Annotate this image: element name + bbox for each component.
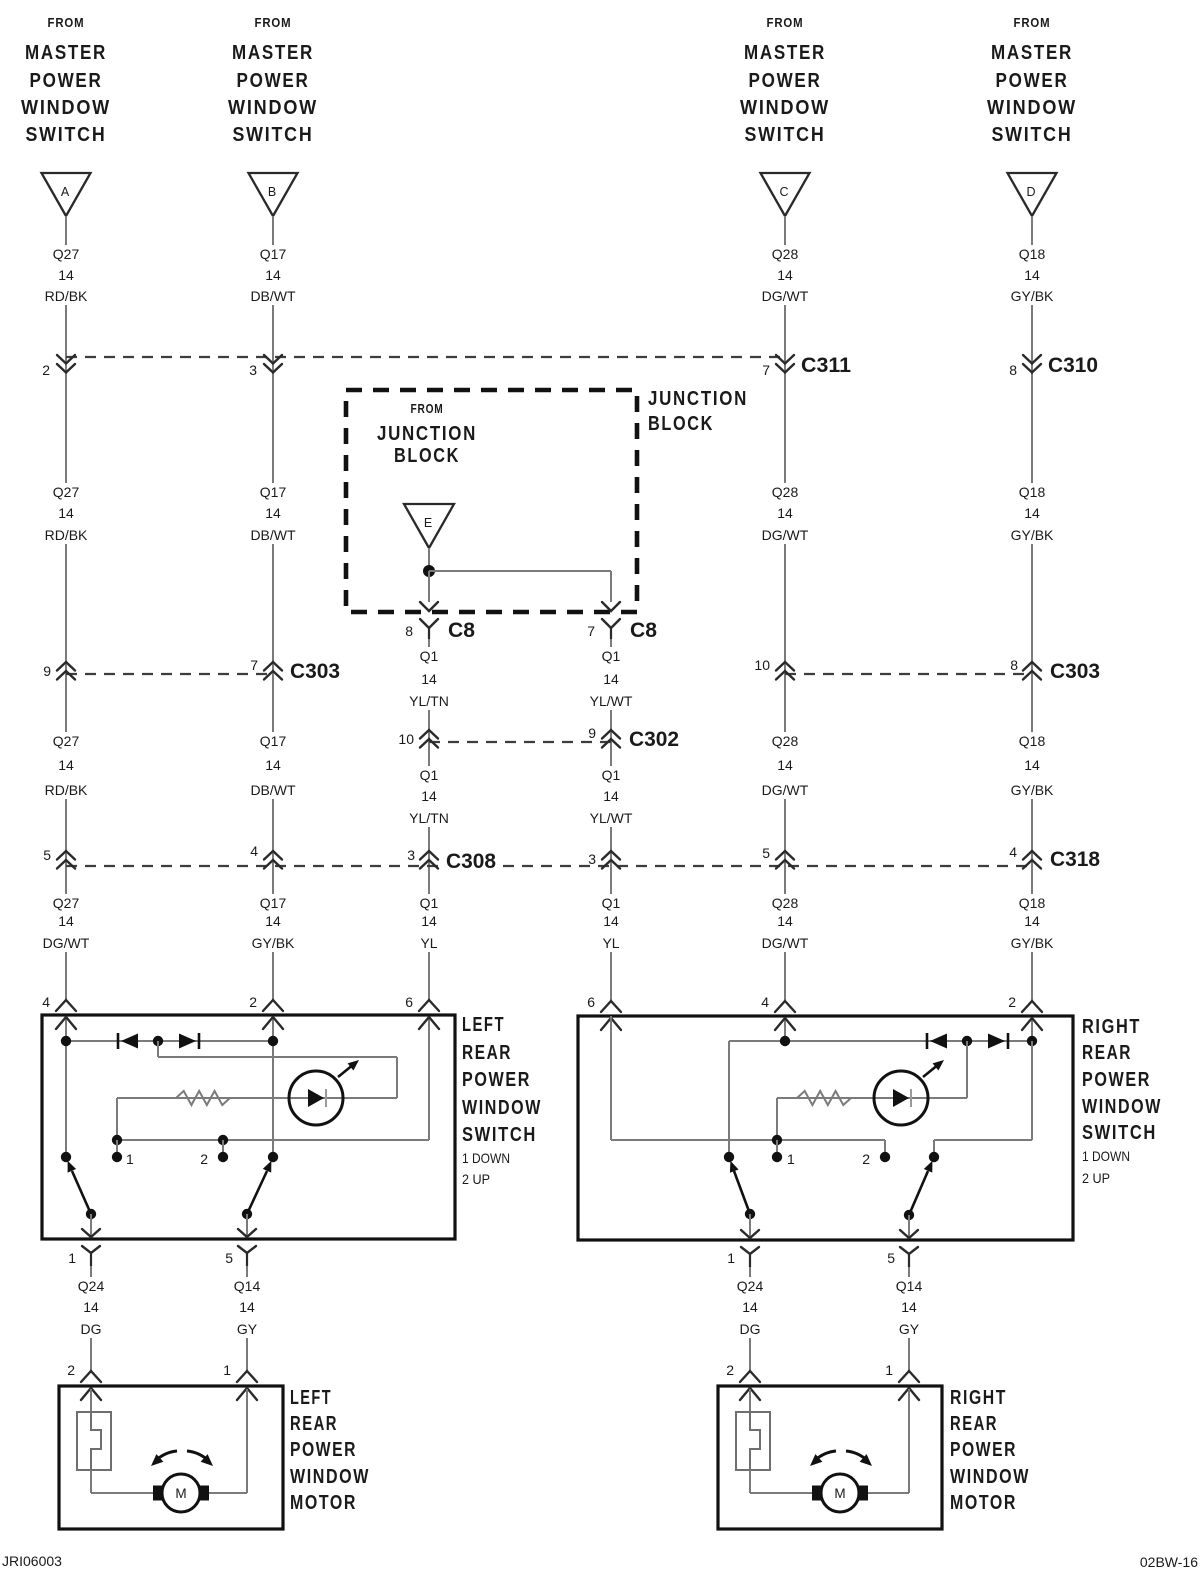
contact stub 1 (right box) [776,1140,778,1157]
svg-text:POWER: POWER [462,1069,531,1091]
junction dot pin4/top bus [61,1036,71,1046]
wire switch pin1 to motor (left) [90,1266,92,1371]
switch arm 1 pivot dot (right box) [745,1209,755,1219]
label FROM JUNCTION BLOCK (inside box) [377,401,477,467]
svg-text:14: 14 [265,757,281,773]
wire resistor drop (right) [776,1098,778,1140]
right rear power window switch box outline [578,1016,1073,1240]
svg-text:Q28: Q28 [772,895,799,911]
wire label Q1 14 YL/WT (col E-right lower) [585,766,638,827]
junction block dashed outline [346,390,637,612]
svg-text:FROM: FROM [767,15,804,30]
svg-text:GY: GY [237,1321,258,1337]
left rear power window motor box outline [59,1386,283,1529]
svg-text:LEFT: LEFT [462,1014,505,1036]
svg-text:SWITCH: SWITCH [992,124,1073,146]
svg-text:DG/WT: DG/WT [762,935,809,951]
off-page connector triangle D [1008,173,1057,216]
svg-text:14: 14 [603,788,619,804]
wire label Q24 14 DG (right) [733,1277,768,1338]
svg-text:GY/BK: GY/BK [252,935,295,951]
svg-text:2: 2 [726,1362,734,1378]
connector C8 pin 8 [405,602,438,639]
svg-text:YL: YL [602,935,619,951]
wire column C (Q28) [784,216,786,1000]
svg-text:1: 1 [126,1151,134,1167]
svg-text:POWER: POWER [749,70,822,92]
svg-text:Q27: Q27 [53,484,80,500]
svg-text:SWITCH: SWITCH [233,124,314,146]
svg-text:14: 14 [265,505,281,521]
junction node dot [423,565,435,577]
svg-text:1 DOWN: 1 DOWN [1082,1148,1130,1164]
connector pin 2 (col A row 1) [42,355,75,378]
switch pin 4 entry (right box) [761,994,795,1030]
svg-text:GY: GY [899,1321,920,1337]
wire motor to pin1 (right) [868,1492,909,1494]
svg-text:YL: YL [420,935,437,951]
off-page connector triangle A [42,173,91,216]
svg-text:YL/TN: YL/TN [409,693,449,709]
svg-text:Q27: Q27 [53,246,80,262]
svg-text:7: 7 [587,623,595,639]
dashed harness line row 1 [66,356,787,358]
svg-text:14: 14 [742,1299,758,1315]
switch arm 1 (left box) [72,1171,91,1214]
svg-text:14: 14 [603,671,619,687]
wire column E-right (Q1 YL/WT) [610,639,612,1000]
svg-text:Q1: Q1 [420,895,439,911]
switch pin 5 exit (right box) [887,1230,918,1267]
svg-text:14: 14 [58,267,74,283]
svg-text:14: 14 [901,1299,917,1315]
indicator lamp circle (right) [874,1071,928,1125]
svg-text:C311: C311 [801,354,851,377]
svg-text:DB/WT: DB/WT [250,288,296,304]
wire lamp feed horizontal [158,1056,397,1058]
svg-text:MASTER: MASTER [991,42,1073,64]
svg-text:1: 1 [787,1151,795,1167]
lamp LED triangle (left) [308,1089,324,1107]
label JUNCTION BLOCK (outside box) [648,388,748,435]
dashed harness line C302 [429,741,611,743]
svg-text:FROM: FROM [411,401,444,416]
svg-text:DG/WT: DG/WT [43,935,90,951]
svg-text:2 UP: 2 UP [462,1171,490,1187]
wire label Q18 14 GY/BK (col D mid2) [1006,732,1059,799]
wire label Q18 14 GY/BK (col D top) [1006,245,1059,305]
svg-text:14: 14 [239,1299,255,1315]
switch pin 6 entry (left box) [405,994,439,1029]
svg-text:C8: C8 [448,619,475,642]
wire label Q24 14 DG (left) [74,1277,109,1338]
motor pin 1 entry (left) [223,1362,257,1400]
lamp LED bar (right) [910,1089,912,1107]
svg-text:14: 14 [265,267,281,283]
svg-text:LEFT: LEFT [290,1387,332,1409]
svg-text:9: 9 [43,663,51,679]
switch arm 2 (right box) [909,1171,928,1215]
svg-text:Q17: Q17 [260,246,287,262]
svg-text:DG: DG [740,1321,761,1337]
wire label Q1 14 YL (col E-left bottom) [412,894,446,952]
svg-text:SWITCH: SWITCH [745,124,826,146]
wire entry to breaker (right) [749,1389,751,1412]
svg-text:10: 10 [398,731,414,747]
svg-text:A: A [61,185,70,199]
resistor (left switch illumination) [176,1091,230,1105]
svg-text:C8: C8 [630,619,657,642]
wire column B (Q17) [272,216,274,1000]
svg-text:1: 1 [68,1250,76,1266]
svg-text:SWITCH: SWITCH [462,1124,537,1146]
svg-text:RD/BK: RD/BK [45,782,88,798]
svg-text:M: M [834,1486,845,1501]
wire resistor drop (left) [116,1098,118,1140]
svg-text:14: 14 [58,505,74,521]
svg-text:GY/BK: GY/BK [1011,527,1054,543]
svg-text:POWER: POWER [237,70,310,92]
svg-text:BLOCK: BLOCK [394,445,460,467]
svg-text:REAR: REAR [290,1413,338,1435]
diode D2 (left box, pointing right) [179,1033,199,1049]
svg-text:1: 1 [727,1250,735,1266]
svg-text:C: C [779,185,788,199]
svg-text:14: 14 [421,788,437,804]
svg-text:14: 14 [83,1299,99,1315]
junction dot lower bus mid [218,1135,228,1145]
svg-text:8: 8 [1010,657,1018,673]
svg-text:2: 2 [249,994,257,1010]
svg-text:BLOCK: BLOCK [648,413,714,435]
contact stub 2 (left box) [222,1140,224,1157]
wire label Q17 14 DB/WT (col B top) [247,245,300,305]
right switch internal top bus wire [729,1040,1032,1042]
svg-text:FROM: FROM [255,15,292,30]
svg-text:Q18: Q18 [1019,246,1046,262]
svg-text:DG: DG [81,1321,102,1337]
contact dot 2 (right box) [880,1152,890,1162]
wire label Q27 14 RD/BK (col A mid2) [40,732,93,799]
connector C318 pin 5 (col C) [762,845,794,869]
svg-text:10: 10 [754,657,770,673]
off-page connector triangle E [404,504,454,548]
connector C302 pin 9 (col E-right) [588,725,620,748]
svg-text:WINDOW: WINDOW [987,97,1077,119]
svg-text:14: 14 [1024,505,1040,521]
svg-text:2: 2 [42,362,50,378]
wire pin2 jog horizontal (right box) [934,1139,1032,1141]
svg-text:C302: C302 [629,728,679,751]
circuit breaker (left) [77,1412,111,1470]
svg-text:E: E [424,516,432,530]
wire left branch down to C8 [428,571,430,602]
wire breaker to motor (right) [749,1470,751,1493]
svg-text:WINDOW: WINDOW [740,97,830,119]
svg-text:14: 14 [603,913,619,929]
svg-text:Q27: Q27 [53,733,80,749]
wire pin2 jog down (right box) [1031,1041,1033,1140]
svg-text:4: 4 [250,843,258,859]
header label: FROM MASTER POWER WINDOW SWITCH (C) [740,15,830,146]
svg-text:FROM: FROM [1014,15,1051,30]
svg-text:14: 14 [1024,913,1040,929]
wire pin6 riser (right box) [610,1016,612,1140]
svg-text:Q1: Q1 [602,648,621,664]
svg-text:Q14: Q14 [896,1278,923,1294]
switch pin 1 exit (left box) [68,1229,100,1266]
switch pin 5 exit (left box) [225,1229,256,1266]
common contact dot switch2 (right box) [929,1152,939,1162]
svg-text:Q24: Q24 [737,1278,764,1294]
svg-text:REAR: REAR [462,1042,512,1064]
svg-text:Q18: Q18 [1019,484,1046,500]
left switch lower bus wire [117,1139,429,1141]
svg-text:8: 8 [1009,362,1017,378]
svg-text:WINDOW: WINDOW [950,1466,1030,1488]
svg-text:Q18: Q18 [1019,895,1046,911]
svg-text:Q17: Q17 [260,733,287,749]
svg-text:MASTER: MASTER [232,42,314,64]
svg-text:6: 6 [405,994,413,1010]
svg-text:1: 1 [885,1362,893,1378]
wire label Q1 14 YL/WT (col E-right upper) [585,647,638,710]
svg-text:YL/TN: YL/TN [409,810,449,826]
connector C303 pin 10 (col C) [754,657,794,680]
svg-text:MASTER: MASTER [25,42,107,64]
label RIGHT REAR POWER WINDOW SWITCH [1082,1016,1162,1186]
svg-text:DG/WT: DG/WT [762,782,809,798]
svg-text:WINDOW: WINDOW [228,97,318,119]
switch arm 2 pivot dot (left box) [242,1209,252,1219]
rotation arrows (right) [814,1451,836,1461]
svg-text:Q17: Q17 [260,484,287,500]
svg-text:WINDOW: WINDOW [1082,1096,1162,1118]
wire label Q17 14 DB/WT (col B mid2) [247,732,300,799]
svg-text:4: 4 [1009,844,1017,860]
connector C318 pin 4 (col D) [1009,844,1041,869]
junction dot pin2/top bus (right) [1027,1036,1037,1046]
svg-text:Q27: Q27 [53,895,80,911]
lamp indicator arrow (right) [923,1064,939,1077]
wire pivot2 to pin 5 exit [246,1214,248,1237]
wire label Q18 14 GY/BK (col D bottom) [1006,894,1059,952]
contact dot 2 (left box) [218,1152,228,1162]
wire pin2 jog stub (right box) [933,1140,935,1157]
svg-text:Q1: Q1 [602,895,621,911]
svg-text:1: 1 [223,1362,231,1378]
svg-text:14: 14 [777,505,793,521]
svg-text:C303: C303 [290,660,340,683]
wire label Q28 14 DG/WT (col C mid1) [759,483,812,544]
contact dot 1 (left box) [112,1152,122,1162]
connector C311 pin 7 [762,355,794,378]
svg-text:5: 5 [762,845,770,861]
svg-text:5: 5 [225,1250,233,1266]
svg-text:POWER: POWER [996,70,1069,92]
wire right branch down to C8 [610,571,612,602]
svg-text:14: 14 [58,913,74,929]
svg-text:YL/WT: YL/WT [590,810,633,826]
switch pin 2 entry (right box) [1008,994,1042,1030]
svg-text:14: 14 [1024,757,1040,773]
switch arm 1 (right box) [734,1171,750,1214]
contact stub 2 (right box) [884,1140,886,1157]
connector pin 3 (col B row 1) [249,355,282,378]
junction dot pin2/top bus [268,1036,278,1046]
svg-text:5: 5 [43,847,51,863]
svg-text:MOTOR: MOTOR [290,1492,357,1514]
svg-text:Q28: Q28 [772,484,799,500]
svg-text:DG/WT: DG/WT [762,527,809,543]
svg-text:5: 5 [887,1250,895,1266]
svg-text:14: 14 [421,671,437,687]
diode D1 (right box, pointing left) [927,1033,947,1049]
wire pivot2 to pin 5 exit (right) [908,1215,910,1238]
switch pin 4 entry (left box) [42,994,76,1029]
svg-text:2: 2 [67,1362,75,1378]
switch pin 6 entry (right box) [587,994,621,1030]
switch pin 1 exit (right box) [727,1230,759,1267]
dashed harness line C308/C318 [66,865,1032,867]
svg-text:14: 14 [1024,267,1040,283]
wire label Q27 14 DG/WT (col A bottom) [40,894,93,952]
connector C308 pin 5 (col A) [43,847,75,869]
svg-text:3: 3 [249,362,257,378]
wire top bus corner drop to switch 1 (right) [728,1041,730,1157]
svg-text:WINDOW: WINDOW [290,1466,370,1488]
contact stub 1 (left box) [116,1140,118,1157]
svg-text:C308: C308 [446,850,496,873]
svg-text:D: D [1026,185,1035,199]
junction dot lower bus (right) [772,1135,782,1145]
svg-text:POWER: POWER [950,1439,1017,1461]
wire lamp feed drop [396,1057,398,1098]
lamp indicator arrow (left) [338,1064,354,1077]
junction dot diodes mid (right) [962,1036,972,1046]
svg-text:GY/BK: GY/BK [1011,782,1054,798]
svg-text:C310: C310 [1048,354,1098,377]
svg-text:Q28: Q28 [772,733,799,749]
svg-text:2: 2 [200,1151,208,1167]
svg-text:WINDOW: WINDOW [462,1097,542,1119]
wire pivot1 to pin 1 exit (right) [749,1214,751,1238]
svg-text:B: B [268,185,276,199]
svg-text:POWER: POWER [1082,1069,1151,1091]
svg-text:SWITCH: SWITCH [1082,1122,1157,1144]
lamp LED triangle (right) [893,1089,909,1107]
svg-text:JUNCTION: JUNCTION [648,388,748,410]
wire switch pin5 to motor (right) [908,1267,910,1371]
svg-text:MASTER: MASTER [744,42,826,64]
connector C303 pin 9 (col A) [43,662,75,680]
svg-text:POWER: POWER [290,1439,357,1461]
svg-text:REAR: REAR [1082,1042,1132,1064]
svg-text:3: 3 [407,847,415,863]
svg-text:2: 2 [1008,994,1016,1010]
svg-text:SWITCH: SWITCH [26,124,107,146]
svg-text:REAR: REAR [950,1413,998,1435]
wire column E-left (Q1 YL/TN) [428,639,430,1000]
connector C303 pin 7 (col B) [250,657,282,680]
svg-text:Q1: Q1 [420,648,439,664]
wire lamp line [117,1097,397,1099]
svg-text:14: 14 [265,913,281,929]
wire lamp line (right) [777,1097,967,1099]
junction dot lower bus left [112,1135,122,1145]
common contact dot pin4 (left box) [61,1152,71,1162]
svg-text:RD/BK: RD/BK [45,288,88,304]
wire breaker to motor (left) [90,1470,92,1493]
svg-text:RIGHT: RIGHT [1082,1016,1141,1038]
svg-text:GY/BK: GY/BK [1011,288,1054,304]
svg-text:Q24: Q24 [78,1278,105,1294]
switch arm 2 pivot dot (right box) [904,1210,914,1220]
wire diode junction drop [157,1041,159,1057]
wire label Q1 14 YL (col E-right bottom) [594,894,628,952]
wire switch pin5 to motor (left) [246,1266,248,1371]
wire label Q14 14 GY (right) [892,1277,927,1338]
junction dot pin4/top bus (right) [780,1036,790,1046]
svg-text:14: 14 [421,913,437,929]
circuit breaker (right) [736,1412,770,1470]
connector C302 pin 10 (col E-left) [398,730,438,748]
svg-text:2: 2 [862,1151,870,1167]
junction dot diodes mid [153,1036,163,1046]
wire label Q27 14 RD/BK (col A mid1) [40,483,93,544]
svg-text:DB/WT: DB/WT [250,782,296,798]
svg-text:2 UP: 2 UP [1082,1170,1110,1186]
svg-text:MOTOR: MOTOR [950,1492,1017,1514]
left rear power window switch box outline [42,1015,455,1239]
svg-text:C303: C303 [1050,660,1100,683]
svg-text:POWER: POWER [30,70,103,92]
connector C308 pin 4 (col B) [250,843,282,869]
svg-text:6: 6 [587,994,595,1010]
svg-text:14: 14 [777,267,793,283]
wire label Q1 14 YL/TN (col E-left lower) [403,766,456,827]
wire column D (Q18) [1031,216,1033,1000]
svg-text:4: 4 [761,994,769,1010]
wire diode junction drop (right) [966,1041,968,1098]
switch arm 2 (left box) [247,1171,267,1214]
header label: FROM MASTER POWER WINDOW SWITCH (D) [987,15,1077,146]
svg-text:1 DOWN: 1 DOWN [462,1150,510,1166]
label LEFT REAR POWER WINDOW MOTOR [290,1387,370,1514]
svg-text:YL/WT: YL/WT [590,693,633,709]
dashed harness line C303 left [66,673,273,675]
wire junction horizontal to right branch [429,570,611,572]
svg-text:M: M [175,1486,186,1501]
connector C310 pin 8 [1009,355,1041,378]
motor pin 1 entry (right) [885,1362,919,1400]
svg-text:14: 14 [777,913,793,929]
wire label Q17 14 DB/WT (col B mid1) [247,483,300,544]
wire switch pin1 to motor (right) [749,1267,751,1371]
header label: FROM MASTER POWER WINDOW SWITCH (B) [228,15,318,146]
svg-text:RIGHT: RIGHT [950,1387,1007,1409]
svg-text:Q1: Q1 [420,767,439,783]
common contact dot switch1 (right box) [724,1152,734,1162]
svg-text:JUNCTION: JUNCTION [377,423,477,445]
svg-text:DB/WT: DB/WT [250,527,296,543]
svg-text:02BW-16: 02BW-16 [1140,1554,1198,1570]
svg-text:14: 14 [58,757,74,773]
rotation arrows (left) [155,1451,177,1461]
connector C303 pin 8 (col D) [1010,657,1041,680]
wire label Q28 14 DG/WT (col C mid2) [759,732,812,799]
connector C318 pin 3 (col E-right) [588,851,620,869]
